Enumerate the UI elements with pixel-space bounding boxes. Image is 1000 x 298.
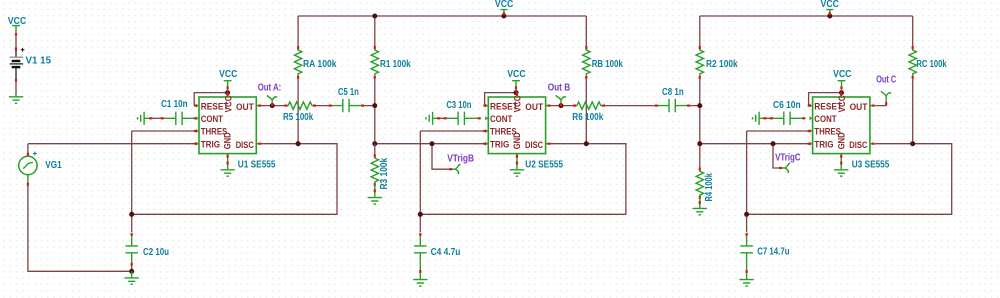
svg-text:VCC: VCC (833, 69, 852, 80)
svg-text:CONT: CONT (201, 114, 224, 124)
svg-text:U2 SE555: U2 SE555 (525, 159, 563, 170)
svg-text:R2 100k: R2 100k (706, 59, 738, 70)
svg-text:Out A:: Out A: (258, 83, 282, 94)
svg-text:DISC: DISC (236, 140, 254, 150)
svg-text:R6 100k: R6 100k (572, 112, 603, 123)
svg-text:V1 15: V1 15 (26, 56, 52, 67)
svg-text:C5 1n: C5 1n (338, 87, 359, 98)
svg-text:VTrigB: VTrigB (447, 154, 474, 165)
svg-text:U3 SE555: U3 SE555 (852, 159, 890, 170)
svg-text:VG1: VG1 (45, 160, 62, 171)
svg-text:R5 100k: R5 100k (283, 112, 314, 123)
svg-text:C4 4.7u: C4 4.7u (431, 247, 461, 258)
svg-text:VCC: VCC (507, 69, 526, 80)
svg-text:VCC: VCC (219, 69, 238, 80)
svg-text:VCC: VCC (495, 0, 514, 10)
svg-text:C1 10n: C1 10n (161, 99, 187, 110)
svg-text:RC 100k: RC 100k (916, 59, 947, 70)
svg-text:RB 100k: RB 100k (592, 59, 623, 70)
svg-text:VCC: VCC (821, 0, 840, 10)
svg-text:VCC: VCC (223, 95, 233, 112)
svg-text:R4 100k: R4 100k (704, 173, 715, 202)
svg-text:RA 100k: RA 100k (303, 59, 337, 70)
svg-text:C7 14.7u: C7 14.7u (757, 247, 789, 258)
svg-text:C2 10u: C2 10u (143, 247, 169, 258)
svg-text:R3 100k: R3 100k (379, 157, 390, 189)
svg-text:C8 1n: C8 1n (662, 87, 684, 98)
svg-text:OUT: OUT (236, 102, 254, 112)
svg-text:C3 10n: C3 10n (446, 100, 471, 111)
svg-text:R1 100k: R1 100k (380, 59, 411, 70)
svg-text:C6 10n: C6 10n (773, 100, 801, 111)
svg-text:U1 SE555: U1 SE555 (238, 159, 276, 170)
svg-text:Out C: Out C (876, 74, 896, 85)
svg-text:VTrigC: VTrigC (775, 153, 801, 164)
svg-text:Out B: Out B (548, 83, 571, 94)
svg-text:TRIG: TRIG (201, 139, 220, 149)
svg-text:GND: GND (223, 132, 233, 149)
svg-text:VCC: VCC (8, 16, 27, 27)
